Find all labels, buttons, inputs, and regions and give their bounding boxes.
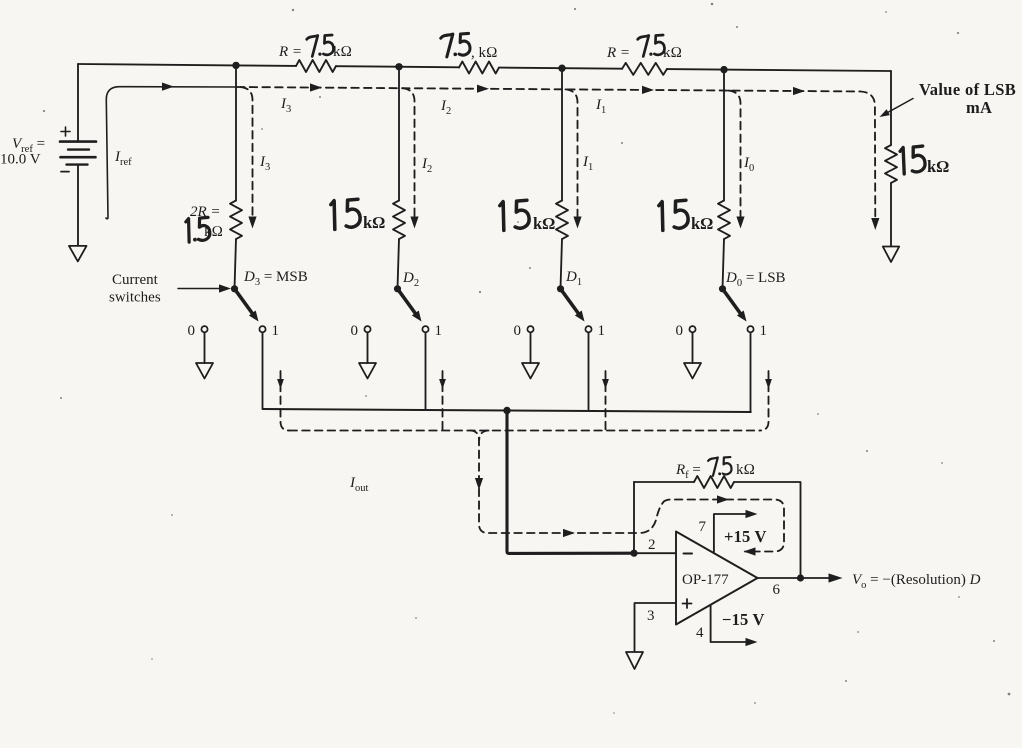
dashed current branch I_2 [403, 88, 415, 222]
switch pivot node (D2) [394, 285, 401, 292]
contact 0 (D2) [364, 326, 370, 332]
pin 4 supply lead [711, 605, 750, 642]
resistor 15k (D1) [556, 201, 568, 240]
resistor R 7.5k (right) zigzag [622, 63, 667, 75]
svg-text:kΩ: kΩ [363, 213, 385, 232]
switch pivot node (D1) [557, 285, 564, 292]
label R = 7.5 kOhm (left) [278, 35, 352, 60]
ground (right branch) [883, 247, 899, 263]
dashed current line (top, I3 I2 I1 to LSB value) [237, 87, 875, 224]
dashed current branch I_0 [729, 91, 741, 222]
label 15 kOhm (right) [900, 145, 950, 176]
svg-text:kΩ: kΩ [663, 45, 682, 61]
switch blade (D2) [398, 289, 422, 322]
node: inverting input [630, 550, 637, 557]
wire: contact 1 to output bus (D2) [425, 332, 427, 410]
svg-text:Iout: Iout [349, 475, 369, 494]
wire: contact 1 to output bus (D1) [588, 332, 590, 411]
svg-text:, kΩ: , kΩ [471, 45, 498, 61]
svg-text:Vo = −(Resolution) D: Vo = −(Resolution) D [852, 572, 981, 591]
svg-text:0: 0 [188, 323, 196, 339]
battery minus sign [61, 171, 69, 173]
svg-text:1: 1 [598, 323, 606, 339]
arrow: switch current down (D0) [765, 379, 772, 389]
svg-text:D1: D1 [565, 269, 582, 288]
dashed current branch I_1 [566, 89, 578, 222]
op-amp plus sign [683, 599, 692, 608]
svg-text:I0: I0 [743, 155, 754, 174]
arrow on dashed line (I3) [310, 83, 322, 91]
svg-text:1: 1 [272, 323, 280, 339]
ground (contact 0, D0) [684, 363, 701, 379]
svg-text:7: 7 [699, 519, 707, 535]
svg-text:I1: I1 [582, 154, 593, 173]
resistor R (MSB) 7.5k zigzag [296, 60, 336, 72]
arrow: dashed line down to right ground [871, 218, 879, 230]
svg-text:kΩ: kΩ [927, 157, 949, 176]
svg-text:Current: Current [112, 272, 159, 288]
node: bus to op-amp junction [503, 407, 510, 414]
battery plus sign [61, 127, 70, 136]
switch pivot node (MSB / D3) [231, 285, 238, 292]
svg-text:−15 V: −15 V [722, 610, 765, 629]
svg-text:0: 0 [676, 323, 684, 339]
svg-text:0: 0 [514, 323, 522, 339]
label Current switches [109, 272, 161, 306]
ground (contact 0, D1) [522, 363, 539, 379]
node: top rail / 2R branch (MSB) [232, 62, 239, 69]
label Value of LSB mA [919, 80, 1016, 117]
dashed output bus (I_out collection) [290, 430, 760, 432]
label 15 kOhm (D1) [500, 200, 556, 233]
contact 1 (MSB / D3) [259, 326, 265, 332]
wire: contact 0 to ground (D0) [692, 332, 694, 363]
arrow pointer from Value-of-LSB to dashed line [880, 99, 914, 118]
dashed current into bus (MSB / D3) [281, 371, 290, 431]
svg-text:mA: mA [966, 98, 992, 117]
arrow: I_2 downward [410, 217, 418, 229]
ground (contact 0, D2) [359, 363, 376, 379]
svg-text:kΩ: kΩ [204, 224, 223, 240]
arrow: current switches pointer [178, 284, 231, 292]
svg-text:kΩ: kΩ [533, 214, 555, 233]
arrow: +15V into pin 7 [746, 510, 758, 518]
svg-text:I1: I1 [595, 97, 606, 116]
wire: feedback top left [634, 481, 694, 483]
node: top rail / D1 branch [558, 65, 565, 72]
pin 7 supply lead [714, 514, 750, 552]
dashed current into bus (D2) [442, 371, 444, 431]
arrow: loop right [717, 495, 729, 503]
dashed Y-split right curve into I_out branch [479, 431, 488, 441]
wire: resistor to switch pivot (D2) [398, 239, 400, 289]
node: top rail / D2 branch [395, 63, 402, 70]
label R = 7.5 kOhm (right) [606, 35, 682, 61]
dashed I_out branch down to op-amp [470, 431, 663, 534]
wire: contact 0 to ground (D2) [367, 332, 369, 363]
dashed current into bus (D0) [760, 371, 769, 431]
ground (contact 0, MSB / D3) [196, 363, 213, 379]
contact 1 (D0) [747, 326, 753, 332]
svg-text:D2: D2 [402, 270, 419, 289]
svg-text:10.0 V: 10.0 V [0, 152, 41, 168]
wire: resistor to switch pivot (D1) [561, 239, 563, 289]
arrow: -15V out of pin 4 [746, 638, 758, 646]
arrow on dashed line (I1) [642, 86, 654, 94]
arrow: switch current down (D2) [439, 379, 446, 389]
wire: output bus (switch commons) [263, 409, 751, 412]
svg-text:1: 1 [760, 323, 768, 339]
arrow: I_out downward [475, 478, 483, 490]
wire: battery negative to ground [77, 165, 79, 246]
arrow: switch current down (MSB / D3) [277, 379, 284, 389]
svg-text:D3 = MSB: D3 = MSB [243, 269, 308, 288]
op-amp minus sign [684, 553, 693, 555]
arrow: switch current down (D1) [602, 379, 609, 389]
arrow on dashed line (I2) [477, 85, 489, 93]
ground (battery) [69, 246, 87, 262]
op-amp U1 OP-177 triangle [676, 532, 758, 625]
contact 1 (D2) [422, 326, 428, 332]
contact 1 (D1) [585, 326, 591, 332]
svg-text:R =: R = [278, 44, 302, 60]
svg-text:Value of LSB: Value of LSB [919, 80, 1016, 99]
svg-text:kΩ: kΩ [736, 462, 755, 478]
svg-text:1: 1 [435, 323, 443, 339]
node: output [797, 574, 804, 581]
wire: contact 0 to ground (MSB / D3) [204, 332, 206, 363]
contact 0 (D0) [689, 326, 695, 332]
svg-text:I3: I3 [280, 96, 291, 115]
svg-text:+15 V: +15 V [724, 527, 767, 546]
wire: Vref positive terminal to rail [77, 64, 79, 141]
svg-text:I2: I2 [440, 98, 451, 117]
svg-text:kΩ: kΩ [691, 214, 713, 233]
battery V_ref plates [60, 142, 96, 165]
switch pivot node (D0) [719, 285, 726, 292]
resistor 15k (D0) [718, 201, 730, 240]
svg-text:6: 6 [773, 582, 781, 598]
label 7.5 kOhm (middle, handwritten) [441, 33, 498, 61]
ground (pin 3) [626, 652, 643, 669]
arrow on dashed line (to LSB) [793, 87, 805, 95]
wire: contact 0 to ground (D1) [530, 332, 532, 363]
label V_ref = 10.0 V [0, 136, 45, 168]
svg-text:I3: I3 [259, 154, 270, 173]
wire: resistor to switch pivot (MSB / D3) [235, 239, 237, 289]
arrow: I_1 downward [573, 217, 581, 229]
wire: op-amp output to node [758, 577, 801, 579]
switch blade (MSB / D3) [235, 289, 259, 322]
wire: branch D1 rail to resistor [561, 68, 563, 200]
switch blade (D0) [723, 289, 747, 322]
svg-text:OP-177: OP-177 [682, 572, 729, 588]
wire: resistor to switch pivot (D0) [723, 239, 725, 289]
svg-text:D0 = LSB: D0 = LSB [725, 270, 786, 289]
dashed supply-current loop around +15V [663, 500, 784, 552]
wire: pin 3 to ground [635, 603, 677, 651]
node: top rail / D0 branch [720, 66, 727, 73]
svg-text:kΩ: kΩ [333, 44, 352, 60]
switch blade (D1) [561, 289, 585, 322]
svg-text:3: 3 [647, 608, 655, 624]
contact 0 (MSB / D3) [201, 326, 207, 332]
wire: bus junction to inverting input (thick) [507, 411, 634, 553]
svg-text:2: 2 [648, 537, 656, 553]
label 15 kOhm (D0) [659, 200, 714, 233]
arrow: loop left (return) [744, 547, 756, 555]
resistor Rf 7.5k [694, 476, 734, 488]
arrow: I_out toward op-amp [563, 529, 575, 537]
resistor 15k (right, LSB value) [885, 145, 897, 183]
label 15 kOhm (D2) [331, 199, 386, 232]
dashed current branch I_3 [241, 87, 253, 222]
svg-text:I2: I2 [421, 156, 432, 175]
resistor 15k (D2) [393, 201, 405, 240]
resistor 2R 1.5k (MSB / D3) [230, 201, 242, 240]
svg-text:0: 0 [351, 323, 359, 339]
wire: branch D0 rail to resistor [723, 70, 725, 201]
wire: node to op-amp pin 2 [634, 552, 676, 554]
wire: contact 1 to output bus (MSB / D3) [262, 332, 264, 409]
dashed current into bus (D1) [605, 371, 607, 431]
svg-text:4: 4 [696, 625, 704, 641]
arrow: I_3 downward [248, 217, 256, 229]
current path I_ref (solid, arrow into dashed run) [106, 83, 237, 219]
svg-text:Iref: Iref [114, 149, 132, 168]
arrow: output [829, 573, 843, 582]
arrow: I_0 downward [736, 217, 744, 229]
wire: feedback top right + down to output [734, 482, 801, 578]
wire: feedback left vertical [633, 482, 635, 553]
wire: branch D2 rail to resistor [398, 67, 400, 201]
label 2R = 1.5 kOhm (MSB) [186, 204, 223, 242]
wire: top rail from Vref to right branch [78, 64, 891, 71]
wire: contact 1 to output bus (D0) [750, 332, 752, 412]
wire: output arrow [801, 577, 832, 579]
svg-text:R =: R = [606, 45, 630, 61]
wire: right branch down from rail [890, 71, 892, 145]
label Rf = 7.5 kOhm [675, 457, 755, 481]
svg-text:switches: switches [109, 290, 161, 306]
wire: branch MSB / D3 rail to resistor [235, 65, 237, 200]
resistor 7.5k (middle) zigzag [459, 62, 499, 74]
wire: right branch to ground [890, 183, 892, 246]
contact 0 (D1) [527, 326, 533, 332]
